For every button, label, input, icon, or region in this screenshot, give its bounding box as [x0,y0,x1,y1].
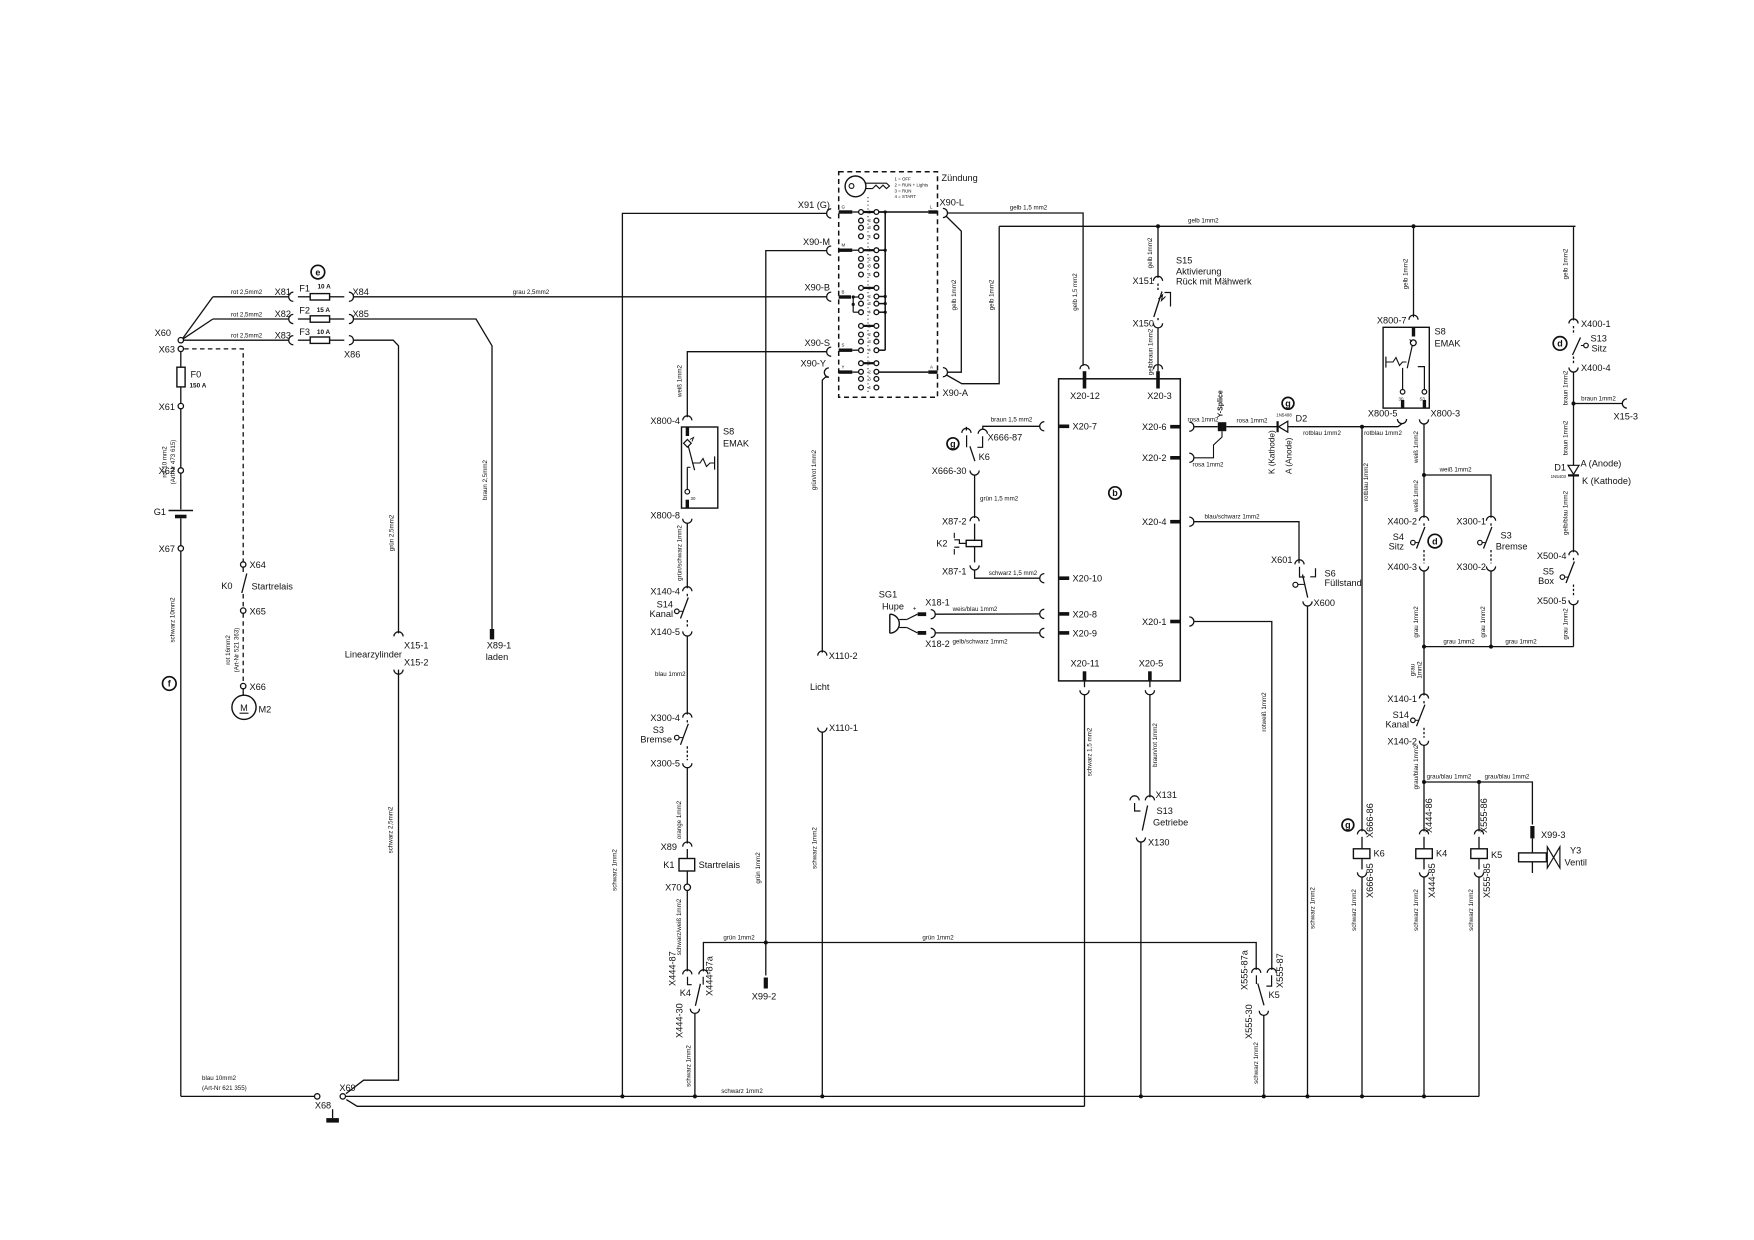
terminal X99-2 [764,978,768,989]
connector X20-12 [1080,365,1089,370]
connector X90-S [827,347,832,356]
svg-text:X90-Y: X90-Y [800,359,826,369]
svg-text:schwarz 10mm2: schwarz 10mm2 [170,597,177,643]
node X65 [241,608,246,613]
wire gelb 1mm2 X90-A up to top rail [947,226,1000,383]
svg-text:Linearzylinder: Linearzylinder [345,650,402,660]
svg-text:blau 1mm2: blau 1mm2 [655,671,686,678]
svg-text:X89: X89 [661,842,677,852]
svg-text:X150: X150 [1133,319,1154,329]
svg-text:X444-85: X444-85 [1427,863,1437,898]
svg-text:grau 1mm2: grau 1mm2 [1443,638,1475,645]
svg-text:X82: X82 [275,309,291,319]
battery G1 [169,510,194,512]
switch box S8 EMAK left [682,427,718,508]
wire bottom to X68 blau 10mm2 [181,1095,315,1097]
svg-text:grün 1mm2: grün 1mm2 [755,852,762,884]
wire graublau 1mm2 rail to Y3 [1424,782,1532,825]
svg-text:F1: F1 [299,284,310,294]
svg-text:d: d [1557,339,1563,349]
svg-text:K5: K5 [1491,850,1502,860]
svg-text:X18-1: X18-1 [925,598,950,608]
connector X444-30 [690,1009,699,1014]
wire braun 1mm2 to X15-3 [1574,403,1623,405]
connector X87-1 [970,565,979,570]
svg-text:X66: X66 [250,682,266,692]
svg-text:weiß 1mm2: weiß 1mm2 [1439,467,1473,474]
wire G1 to X67 [180,518,182,545]
svg-text:10 A: 10 A [317,329,331,336]
wire weiss 1mm2 branch to X300-1 [1424,475,1491,518]
ignition Y row wire to A [879,371,929,373]
connector X15-2 [394,670,403,675]
svg-text:F0: F0 [191,370,202,380]
svg-text:K4: K4 [1436,849,1447,859]
wire X444-86 drop [1423,782,1425,831]
svg-text:X65: X65 [250,606,266,616]
svg-text:schwarz/weiß 1mm2: schwarz/weiß 1mm2 [676,898,683,955]
svg-text:1N5408: 1N5408 [1276,412,1292,417]
wire braun 1.5mm2 X20-7 to X666-87 [983,426,1040,429]
wire rosa 1mm2 X20-6 to Y-splice [1194,426,1218,428]
reference mark g [1282,397,1294,409]
wire X60 to F1 row [183,297,213,338]
connector X20-6 [1170,425,1180,429]
wire gelb 1mm2 to X151 [1157,226,1159,278]
svg-text:S3: S3 [653,725,664,735]
connector X20-8 [1059,612,1069,616]
svg-text:Bremse: Bremse [640,735,672,745]
reference mark g [1342,819,1354,831]
wire X20-2 branch from Y-splice [1194,431,1222,458]
svg-text:+: + [913,606,917,613]
wire gelb 1mm2 top rail to X800-7 [1413,226,1415,317]
svg-text:Getriebe: Getriebe [1153,818,1188,828]
junction X800-7 branch [1412,224,1416,228]
svg-text:grau: grau [1410,663,1417,676]
svg-text:X140-4: X140-4 [650,587,680,597]
svg-text:X64: X64 [250,560,266,570]
svg-text:grau 1mm2: grau 1mm2 [1505,638,1537,645]
svg-text:X555-86: X555-86 [1479,798,1489,833]
relay coil K5 [1478,837,1480,849]
svg-text:Y-Splice: Y-Splice [1218,390,1225,417]
svg-text:X20-6: X20-6 [1142,422,1167,432]
wire X61 to X62 rot 10mm2 [180,409,182,468]
wire schwarz-weiss 1mm2 X70 to X444-87 [686,891,688,972]
dashed cable X63 to X64 [184,349,243,562]
connector X15-1 Linearzylinder [394,632,403,637]
wire grau 1mm2 X400-3 to grau rail [1423,571,1425,647]
svg-text:X81: X81 [275,287,291,297]
connector X82 [289,314,294,323]
svg-text:grau/blau 1mm2: grau/blau 1mm2 [1427,774,1472,781]
wire gruen-schwarz 1mm2 X800-8 to X140-4 [686,523,688,588]
svg-text:S14: S14 [1393,710,1409,720]
svg-text:Aktivierung: Aktivierung [1176,267,1221,277]
svg-text:schwarz 1,5 mm2: schwarz 1,5 mm2 [989,570,1038,577]
svg-text:X130: X130 [1148,838,1169,848]
svg-text:rot 2,5mm2: rot 2,5mm2 [231,333,263,340]
svg-text:g: g [1285,399,1291,409]
wire X60 to F2 row [183,319,213,339]
svg-text:X20-7: X20-7 [1073,422,1098,432]
wire X62 to G1 [180,473,182,509]
connector X85 [349,314,354,323]
node X60 battery hub [178,338,183,343]
node X64 [241,562,246,567]
svg-text:rot 2,5mm2: rot 2,5mm2 [231,289,263,296]
switch box S8 EMAK right [1383,327,1429,408]
svg-text:schwarz 2,5mm2: schwarz 2,5mm2 [388,806,395,853]
wire gruen 2.5mm2 X86 to X15-1 [354,340,399,633]
svg-text:(Art-Nr 621 355): (Art-Nr 621 355) [202,1085,247,1092]
svg-text:X18-2: X18-2 [925,639,950,649]
svg-text:X800-8: X800-8 [650,511,680,521]
svg-text:X666-30: X666-30 [932,466,967,476]
svg-text:S14: S14 [657,600,673,610]
svg-text:X86: X86 [344,350,360,360]
svg-text:S15: S15 [1176,256,1192,266]
switch S3 Bremse [1490,523,1492,526]
svg-text:S4: S4 [1393,532,1404,542]
connector X90-Y [824,368,829,377]
svg-text:A (Anode): A (Anode) [1285,437,1294,474]
switch S14 Kanal [1423,701,1425,704]
wire schwarz 1.5mm2 X87-1 to X20-10 [975,570,1040,578]
svg-text:S13: S13 [1157,806,1173,816]
svg-text:X15-3: X15-3 [1614,412,1639,422]
wire rotblau 1mm2 D2 to X800-5 [1288,426,1398,428]
svg-text:grau 1mm2: grau 1mm2 [1562,608,1569,640]
connector X151 [1153,276,1162,281]
connector X400-4 [1569,368,1578,373]
svg-text:A (Anode): A (Anode) [1581,459,1622,469]
svg-text:braun 1,5 mm2: braun 1,5 mm2 [991,416,1033,423]
connector X666-86 [1357,830,1366,835]
connector X15-3 [1622,399,1627,408]
svg-text:Kanal: Kanal [1386,719,1410,729]
svg-text:X20-12: X20-12 [1070,391,1100,401]
svg-text:g: g [1345,820,1351,830]
wire gelbbraun 1mm2 X150 to X20-3 [1157,328,1159,371]
svg-text:weiß 1mm2: weiß 1mm2 [1413,479,1420,513]
svg-text:gelb/schwarz 1mm2: gelb/schwarz 1mm2 [952,639,1008,646]
wire gelb-schwarz 1mm2 X18-2 to X20-9 [935,632,1039,634]
dashed cable X65 to X66 rot 16mm2 [242,613,244,683]
svg-text:15 A: 15 A [317,307,331,314]
svg-text:gelb 1,5 mm2: gelb 1,5 mm2 [1072,273,1079,311]
controller box b [1059,379,1181,681]
svg-text:K0: K0 [221,581,232,591]
connector X666-85 [1357,872,1366,877]
svg-text:rotblau 1mm2: rotblau 1mm2 [1364,430,1402,437]
wire grau 1mm2 X300-2 to grau rail [1490,571,1492,647]
svg-text:Licht: Licht [810,682,830,692]
connector X300-1 [1486,516,1495,521]
svg-text:S3: S3 [1501,531,1512,541]
svg-text:X300-5: X300-5 [650,759,680,769]
svg-text:grau/blau 1mm2: grau/blau 1mm2 [1485,774,1530,781]
svg-text:K (Kathode): K (Kathode) [1268,430,1277,474]
node X69 [340,1094,345,1099]
svg-text:orange 1mm2: orange 1mm2 [676,800,683,839]
svg-text:3 = RUN: 3 = RUN [895,188,912,193]
ignition G row wire to L [879,211,929,213]
svg-text:weiß 1mm2: weiß 1mm2 [676,364,683,398]
svg-text:X99-2: X99-2 [752,992,777,1002]
ignition G terminal bar [839,210,853,213]
svg-text:rotweiß 1mm2: rotweiß 1mm2 [1261,692,1268,732]
connector X90-M [827,246,832,255]
svg-text:K6: K6 [1374,849,1385,859]
wire gruen 1mm2 rail [703,943,1256,972]
svg-text:G1: G1 [154,507,166,517]
connector X300-5 [683,763,692,768]
svg-text:blau/schwarz 1mm2: blau/schwarz 1mm2 [1204,513,1260,520]
wire gelb 1.5mm2 X90-L to X20-12 [948,213,1084,366]
fuse F1 10A [298,296,310,298]
svg-text:schwarz 1mm2: schwarz 1mm2 [1310,887,1317,929]
wire X66 to motor [242,689,244,695]
connector X91 (G) [827,209,832,218]
wire orange 1mm2 X300-5 to X89 [686,768,688,844]
connector X130 [1136,838,1145,843]
wire blau-schwarz 1mm2 X20-4 to X601 [1194,522,1299,564]
node X62 [178,468,183,473]
svg-text:S8: S8 [1435,327,1446,337]
relay coil K4 [1423,837,1425,849]
S15 switch lever [1157,284,1159,291]
node X66 [241,683,246,688]
svg-text:grün 1mm2: grün 1mm2 [723,934,755,941]
fuse F2 15A [298,318,310,320]
wire X87-2 to K2 [974,524,976,541]
svg-text:X140-1: X140-1 [1387,694,1417,704]
svg-text:X20-2: X20-2 [1142,453,1167,463]
svg-text:X83: X83 [275,330,291,340]
wire graublau 1mm2 X140-2 to junction [1423,745,1425,782]
connector X20-3 [1153,365,1162,370]
svg-text:X500-4: X500-4 [1537,551,1567,561]
svg-text:X20-3: X20-3 [1147,391,1172,401]
relay coil K6 [1361,837,1363,849]
reference mark e [311,265,325,279]
wire schwarz 1mm2 X555-85 to bus end [1478,877,1480,1096]
wire F0 to X61 [180,387,182,404]
svg-text:X20-4: X20-4 [1142,517,1167,527]
svg-text:Box: Box [1538,576,1554,586]
svg-text:X90-A: X90-A [943,388,969,398]
svg-text:Startrelais: Startrelais [252,582,294,592]
relay contact K4 [683,970,692,975]
junction graublau rail [1422,780,1426,784]
svg-text:X20-10: X20-10 [1073,574,1103,584]
connector X84 [349,292,354,301]
connector X90-A [943,368,948,377]
wire X130 to bus [1140,842,1142,1096]
svg-text:Ventil: Ventil [1565,858,1587,868]
svg-text:d: d [1432,536,1438,546]
wire braun 2.5mm2 X85 to X89-1 laden [354,319,493,629]
svg-text:gelb 1mm2: gelb 1mm2 [988,279,995,310]
svg-text:blau 10mm2: blau 10mm2 [202,1075,237,1082]
svg-text:K6: K6 [979,452,990,462]
wire X60 to F3 row [184,339,289,341]
svg-text:Füllstand: Füllstand [1325,578,1362,588]
relay coil K1 Startrelais [686,849,688,859]
svg-text:X131: X131 [1156,790,1177,800]
svg-text:schwarz 1mm2: schwarz 1mm2 [1413,889,1420,931]
connector X131 [1145,796,1154,801]
junction S15 branch [1156,224,1160,228]
svg-text:S6: S6 [1325,569,1336,579]
wire schwarz 2.5mm2 X15-2 to X69 [346,670,399,1094]
svg-text:X800-3: X800-3 [1431,409,1461,419]
switch S5 Box [1573,558,1575,561]
svg-text:grün/rot 1mm2: grün/rot 1mm2 [811,449,818,490]
svg-text:X400-1: X400-1 [1581,319,1611,329]
svg-text:X110-1: X110-1 [829,723,858,733]
svg-text:X68: X68 [315,1101,331,1111]
ignition L terminal bar [928,210,937,213]
svg-text:M2: M2 [259,705,272,715]
connector X444-86 [1419,830,1428,835]
svg-text:Bremse: Bremse [1496,542,1528,552]
svg-text:grau 1mm2: grau 1mm2 [1480,606,1487,638]
wire grau 1mm2 X500-5 to grau rail [1573,605,1575,647]
wire X90-Y gruen-rot 1mm2 down to X110-2 [822,377,829,652]
wire horn plus to X18-1 [907,614,918,619]
svg-text:grün 1,5 mm2: grün 1,5 mm2 [980,496,1019,503]
svg-text:schwarz 1mm2: schwarz 1mm2 [721,1088,763,1095]
wire gelb-blau 1mm2 D1 to X500-4 [1573,477,1575,553]
connector X90-B [827,292,832,301]
svg-text:X500-5: X500-5 [1537,596,1567,606]
svg-text:X400-2: X400-2 [1387,516,1417,526]
svg-text:K4: K4 [680,988,691,998]
wire weiss 1mm2 X800-3 down [1423,424,1425,518]
svg-text:X601: X601 [1271,555,1292,565]
svg-text:schwarz 1mm2: schwarz 1mm2 [1351,889,1358,931]
connector X83 [289,336,294,345]
connector X400-2 [1419,516,1428,521]
svg-text:Rück mit Mähwerk: Rück mit Mähwerk [1176,277,1252,287]
ignition B terminal internal link [852,297,854,312]
connector X20-4 [1170,520,1180,524]
svg-text:X110-2: X110-2 [829,651,858,661]
Y-Splice [1218,422,1227,431]
svg-text:X600: X600 [1314,598,1335,608]
svg-text:schwarz 1mm2: schwarz 1mm2 [1253,1042,1260,1084]
junction weiss branch [1422,473,1426,477]
svg-text:Hupe: Hupe [882,602,904,612]
switch S3 Bremse [686,720,688,723]
svg-text:M: M [842,243,846,248]
svg-text:rotblau 1mm2: rotblau 1mm2 [1363,463,1370,501]
svg-text:S13: S13 [1591,334,1607,344]
wire schwarz 1mm2 X444-30 to bus [694,1013,696,1096]
svg-text:1 = OFF: 1 = OFF [895,177,912,182]
svg-text:X300-2: X300-2 [1456,562,1486,572]
svg-text:e: e [315,267,320,277]
switch S13 Getriebe [1130,796,1139,801]
relay coil K2 [966,540,982,546]
switch S14 Kanal [686,594,688,597]
svg-text:X444-30: X444-30 [675,1003,685,1038]
svg-text:rotblau 1mm2: rotblau 1mm2 [1303,430,1341,437]
connector X800-5 [1397,419,1406,424]
svg-text:rosa 1mm2: rosa 1mm2 [1237,418,1269,425]
connector X800-8 [683,519,692,524]
svg-text:grün/schwarz 1mm2: grün/schwarz 1mm2 [676,525,683,581]
svg-text:X90-B: X90-B [804,283,830,293]
ignition contact column [859,210,864,215]
svg-text:X140-5: X140-5 [650,627,680,637]
svg-text:X67: X67 [159,544,175,554]
ignition B terminal bar [839,295,851,298]
svg-text:(Art-Nr 521 363): (Art-Nr 521 363) [234,628,241,673]
wire horn minus to X18-2 [907,628,918,633]
svg-text:Kanal: Kanal [650,609,674,619]
connector X20-2 [1170,456,1180,460]
terminal X18-1 [918,612,927,616]
svg-text:braun 2,5mm2: braun 2,5mm2 [482,459,489,499]
node X61 [178,403,183,408]
connector X86 [349,336,354,345]
svg-text:X20-5: X20-5 [1139,659,1164,669]
ignition A terminal bar [928,370,937,373]
connector X90-L [943,208,948,217]
connector X89 [683,842,692,847]
svg-text:braun 1mm2: braun 1mm2 [1581,395,1616,402]
svg-text:weis/blau 1mm2: weis/blau 1mm2 [952,606,998,613]
wire weiss-blau 1mm2 X18-1 to X20-8 [935,613,1039,615]
svg-text:1N5403: 1N5403 [1551,474,1567,479]
svg-text:X70: X70 [665,883,681,893]
connector X500-5 [1569,600,1578,605]
svg-text:rosa 1mm2: rosa 1mm2 [1193,462,1225,469]
connector X444-85 [1419,872,1428,877]
fuse F0 150A [177,367,185,387]
connector X150 [1153,323,1162,328]
svg-text:EMAK: EMAK [1435,339,1462,349]
junction X15-3 branch [1572,402,1576,406]
node X63 [178,346,183,351]
wire schwarz 1mm2 X600 to bus [1307,606,1309,1096]
svg-text:X444-87: X444-87 [668,951,678,986]
svg-text:K2: K2 [936,539,947,549]
svg-text:braun 1mm2: braun 1mm2 [1562,370,1569,405]
wire X63 to fuse F0 [180,352,182,368]
connector X140-4 [683,587,692,592]
svg-text:Y3: Y3 [1570,846,1581,856]
svg-text:150 A: 150 A [190,383,207,390]
relay contact K5 [1252,968,1261,973]
svg-text:SG1: SG1 [879,590,897,600]
node X68 [315,1094,320,1099]
svg-text:Sitz: Sitz [1389,542,1405,552]
svg-text:grau 1mm2: grau 1mm2 [1413,606,1420,638]
connector X140-5 [683,631,692,636]
wire K2 to X87-1 [974,547,976,563]
svg-text:gelb 1mm2: gelb 1mm2 [1147,237,1154,268]
ignition switch Zuendung dashed box [839,172,938,397]
svg-text:weiß 1mm2: weiß 1mm2 [1413,430,1420,464]
ignition M terminal bar [839,248,853,251]
svg-text:S5: S5 [1543,567,1554,577]
wire X555-86 drop [1478,782,1480,831]
